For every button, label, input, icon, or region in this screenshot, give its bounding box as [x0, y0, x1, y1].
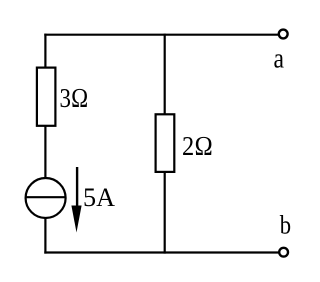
wire: bottom horizontal to terminal b	[44, 251, 279, 253]
wire: top horizontal from left branch to terminal a	[44, 34, 278, 36]
svg-text:a: a	[274, 44, 285, 75]
current direction arrow (5A)	[71, 167, 81, 233]
svg-text:3Ω: 3Ω	[60, 83, 89, 113]
terminal b (open circle)	[279, 248, 288, 257]
svg-text:5A: 5A	[83, 184, 116, 212]
wire: middle vertical lower segment	[164, 172, 166, 254]
wire: left vertical upper segment	[44, 34, 46, 68]
terminal a (open circle)	[279, 30, 288, 39]
wire: left vertical lower segment (source to bottom)	[44, 218, 46, 254]
current source I1 (circle with bar)	[26, 178, 66, 218]
svg-text:b: b	[280, 211, 291, 240]
resistor R1 3Ω	[37, 68, 56, 126]
wire: left vertical middle segment (resistor to source)	[44, 126, 46, 178]
resistor R2 2Ω	[156, 114, 175, 172]
svg-text:2Ω: 2Ω	[182, 131, 213, 161]
wire: middle vertical upper segment	[164, 34, 166, 115]
